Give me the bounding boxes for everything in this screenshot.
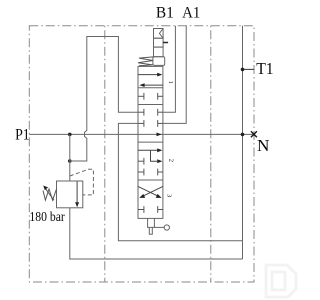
detent tab below stem [149, 227, 152, 234]
section divider chain line left [104, 26, 106, 282]
wire: T1 port stub [243, 68, 255, 70]
relief valve adjustment arrow [45, 187, 55, 200]
svg-text:T1: T1 [256, 59, 274, 78]
svg-text:2: 2 [167, 159, 174, 162]
svg-text:A1: A1 [182, 3, 200, 21]
relief valve spring [43, 189, 57, 200]
position box edge y104.5 [138, 104, 163, 106]
position 1 flow arrow left [142, 84, 163, 86]
position 2 blocked port left y161.2 [138, 158, 144, 165]
relief valve pilot line (dashed) [70, 169, 94, 195]
junction N line / tank line [241, 133, 245, 137]
position box edge y180 [138, 179, 163, 181]
wire: work port B1 line [163, 26, 176, 113]
lever link line [154, 226, 164, 228]
position 2 branch to lower arrow [151, 150, 158, 161]
svg-text:3: 3 [166, 194, 173, 197]
svg-text:1: 1 [167, 81, 174, 84]
blocked ports row y96.3 [138, 93, 163, 100]
position box edge y87.7 [138, 87, 163, 89]
spool stem below valve [148, 218, 155, 227]
blocked ports row y112.2 (P / B1 row) [138, 109, 163, 116]
blocked ports row y209.5 [138, 206, 163, 213]
wire: P1 supply line to plugged port N [29, 133, 253, 135]
position 2 flow arrow upper [138, 149, 160, 151]
position 1 flow arrow right [138, 74, 160, 76]
wire: tank gallery from valve left port down and across [118, 123, 242, 240]
svg-text:P1: P1 [15, 126, 30, 143]
wire: tank return vertical to T1 [242, 26, 244, 259]
blocked ports row y172 [138, 169, 163, 176]
pilot stack box S3 [154, 47, 164, 57]
junction T1 stub [241, 68, 245, 72]
watermark D logo [266, 265, 296, 297]
blocked ports row y123.4 (T / A1 row) [138, 120, 163, 127]
junction relief inlet / bridge takeoff [68, 159, 72, 163]
junction P1 to relief branch [68, 133, 72, 137]
relief valve flow path with arrow [76, 182, 78, 203]
svg-text:180 bar: 180 bar [29, 209, 65, 224]
svg-text:N: N [257, 136, 269, 155]
neutral through-flow arrow on P1 line [157, 133, 162, 137]
wire: relief drain down and across to tank line [70, 208, 243, 259]
main spool valve body outline [138, 66, 163, 218]
lever knob circle [164, 225, 169, 230]
wire: relief inlet drop from P1 line [69, 134, 71, 181]
pilot stack wide box S4 [153, 57, 165, 66]
return spring at stack [138, 57, 153, 66]
position 3 crossed flow arrows [143, 186, 163, 196]
section divider chain line right [210, 26, 212, 282]
pilot stack box S1 with detent notch [154, 29, 164, 39]
position box edge y142.1 [138, 141, 163, 143]
pilot stack box S2 [154, 38, 164, 47]
valve block boundary (chain-line frame) [29, 26, 254, 282]
stub on stack box S2 [163, 42, 168, 44]
relief valve RV1 body [57, 181, 83, 208]
plug X at port N [251, 131, 257, 137]
wire: pressure bridge from relief inlet up and over to valve P port (with crossover jog) [70, 37, 138, 162]
svg-text:B1: B1 [156, 3, 174, 21]
wire: work port A1 line [163, 26, 186, 124]
